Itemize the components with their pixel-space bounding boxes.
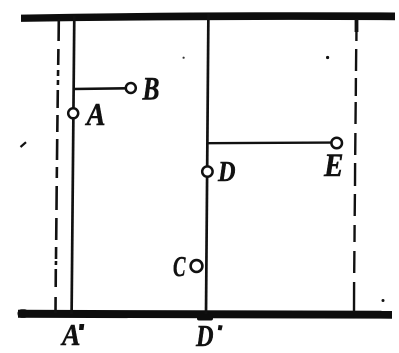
stray dot 2 xyxy=(326,56,329,59)
svg-text:D: D xyxy=(217,157,235,188)
bottom bar xyxy=(18,310,392,319)
svg-text:B: B xyxy=(142,72,160,108)
top bar xyxy=(21,12,395,22)
stray dot 1 xyxy=(183,57,185,59)
prime of D' xyxy=(218,325,223,330)
svg-text:C: C xyxy=(173,252,186,283)
svg-text:A: A xyxy=(85,96,106,132)
prime of A' xyxy=(79,324,84,330)
stray dot 3 xyxy=(382,299,385,302)
wire: horizontal line A to B xyxy=(73,87,126,90)
top blob of right dashed line xyxy=(355,19,359,32)
svg-text:A: A xyxy=(60,317,80,352)
wire: horizontal line D to E xyxy=(208,141,332,144)
bar blob left end xyxy=(18,309,29,318)
right dashed line xyxy=(354,19,357,312)
svg-text:D: D xyxy=(195,318,213,353)
node E circle xyxy=(331,138,342,149)
stray slash mark xyxy=(21,142,27,147)
node C circle xyxy=(191,260,203,272)
svg-text:E: E xyxy=(323,148,343,184)
node B circle xyxy=(126,83,136,93)
left dashed line xyxy=(56,19,59,313)
node A circle xyxy=(68,108,78,118)
bar blob at D' junction xyxy=(197,316,213,321)
wire: vertical line D-D' xyxy=(206,14,208,314)
node D circle xyxy=(202,166,212,176)
wire: vertical line A-A' xyxy=(72,16,75,314)
